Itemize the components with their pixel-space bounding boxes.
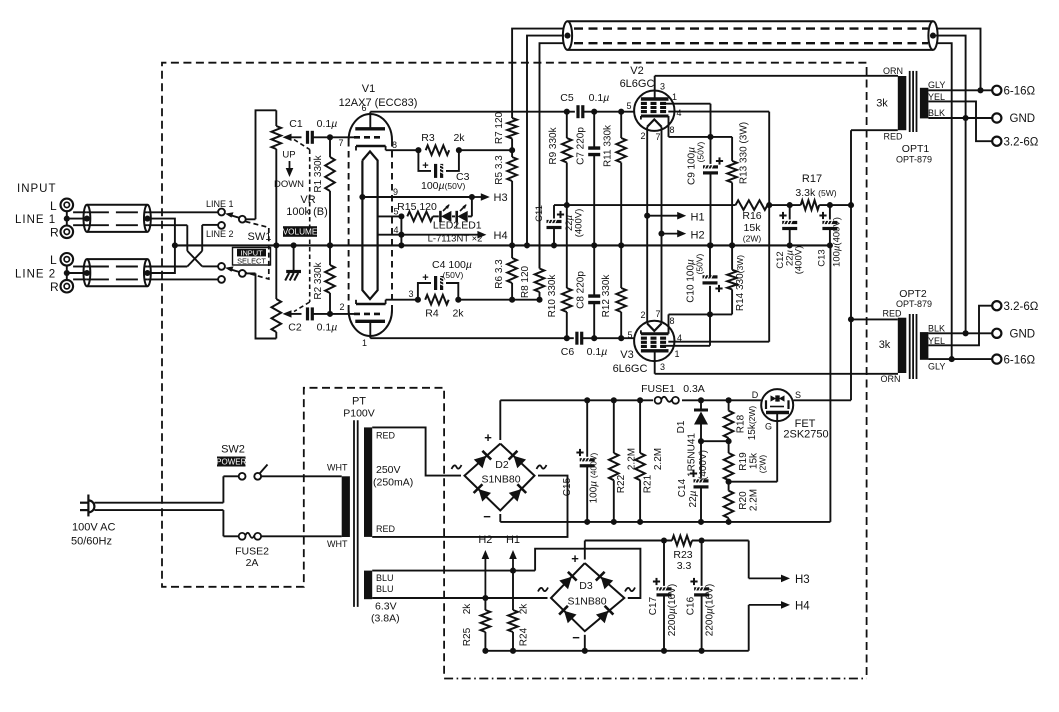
wire D2 plus to B+ line bbox=[499, 400, 501, 440]
svg-text:+: + bbox=[422, 272, 428, 284]
svg-text:GND: GND bbox=[1010, 113, 1036, 125]
svg-text:R16: R16 bbox=[742, 210, 761, 222]
svg-text:3k: 3k bbox=[876, 98, 888, 110]
wire R1 hot to SW1 lower bbox=[73, 224, 87, 226]
wire shield rail to bus bbox=[147, 219, 175, 273]
svg-text:100µ(400V): 100µ(400V) bbox=[832, 217, 843, 267]
potentiometer VR 100k(B) element upper bbox=[275, 110, 277, 126]
svg-text:H4: H4 bbox=[795, 601, 810, 613]
node pin3-R4 bbox=[415, 297, 421, 303]
tilde right (D3) bbox=[625, 588, 635, 592]
node C12-bus bbox=[787, 242, 793, 248]
wire PT RED top to D2 bbox=[372, 427, 461, 475]
wire BLU bottom to D3 bbox=[372, 597, 547, 599]
label VOLUME box bbox=[283, 226, 317, 237]
switch SW1 lower contact LINE2 bbox=[218, 276, 225, 283]
LED1 bbox=[452, 215, 455, 217]
svg-text:0.1µ: 0.1µ bbox=[317, 118, 338, 130]
wire R16 feed line bbox=[554, 204, 736, 206]
capacitor C4 100u electrolytic bbox=[418, 283, 431, 300]
node R14-bus bbox=[729, 242, 735, 248]
node K-V2 bbox=[707, 134, 713, 140]
wire heater column pin2 bbox=[646, 127, 648, 324]
terminal 6-16 ohm (OPT2) bbox=[992, 355, 1001, 364]
svg-text:C5: C5 bbox=[560, 92, 574, 104]
V1 cathode (upper) pin8 bbox=[356, 145, 386, 148]
svg-text:R20: R20 bbox=[738, 491, 749, 510]
wire D3 plus to R23 line bbox=[584, 541, 586, 560]
node C7-bus bbox=[591, 242, 597, 248]
svg-text:C15: C15 bbox=[562, 477, 573, 496]
node B+ OPT2 RED bbox=[848, 316, 854, 322]
wire R23 line bbox=[585, 540, 672, 542]
switch SW1 upper contact LINE1 bbox=[218, 209, 225, 216]
svg-text:D1: D1 bbox=[676, 420, 687, 433]
resistor R1 330k bbox=[329, 137, 331, 157]
V1 plate (upper) pin6 bbox=[355, 127, 385, 130]
wire OPT2 RED lead bbox=[851, 318, 898, 320]
arrow H1 (psu) bbox=[512, 555, 514, 570]
svg-text:R7 120: R7 120 bbox=[494, 111, 505, 144]
svg-text:8: 8 bbox=[669, 316, 674, 326]
V2 heater chevron bbox=[647, 119, 661, 126]
tilde right (D2) bbox=[537, 465, 547, 469]
svg-text:2.2M: 2.2M bbox=[653, 448, 664, 470]
svg-text:3: 3 bbox=[408, 289, 413, 299]
wire PSU ground rail bbox=[500, 521, 830, 523]
node H1 on BLU top bbox=[510, 568, 516, 574]
arrow H3 (psu) bbox=[749, 577, 785, 579]
svg-text:3k: 3k bbox=[879, 339, 891, 351]
tube V1 envelope bbox=[349, 114, 392, 140]
node C13 top bbox=[827, 202, 833, 208]
node C10-bus bbox=[707, 242, 713, 248]
svg-text:0.3A: 0.3A bbox=[683, 383, 705, 395]
svg-text:6-16Ω: 6-16Ω bbox=[1004, 354, 1036, 366]
svg-text:LINE 1: LINE 1 bbox=[15, 214, 56, 226]
wire H4 out bbox=[748, 605, 750, 651]
wire AC twin upper bbox=[95, 502, 224, 504]
svg-text:C8 220p: C8 220p bbox=[576, 271, 587, 309]
svg-text:C14: C14 bbox=[677, 478, 688, 497]
node R4-out bbox=[455, 297, 461, 303]
resistor R6 3.3 bbox=[511, 245, 513, 258]
svg-text:100µ (400V): 100µ (400V) bbox=[589, 452, 600, 503]
V1 pin5 wire bbox=[378, 215, 402, 217]
transistor FET 2SK2750 bbox=[761, 389, 793, 421]
node C6-C8 bbox=[591, 335, 597, 341]
NFB cable conductor 1 (dashed inside) bbox=[574, 27, 928, 29]
V3 cathode pin8 wire bbox=[668, 314, 670, 333]
resistor R25 2k bbox=[484, 598, 486, 610]
svg-text:1: 1 bbox=[674, 349, 679, 359]
node C16 bottom bbox=[699, 648, 705, 654]
svg-text:LINE 2: LINE 2 bbox=[206, 229, 234, 239]
transformer OPT1 primary bbox=[898, 76, 907, 130]
wire SW1 lower pole to pot bottom bbox=[256, 273, 277, 338]
resistor R11 330k bbox=[620, 112, 622, 138]
wire OPT1 YEL to 3.2-6 bbox=[928, 101, 992, 141]
svg-text:G: G bbox=[765, 422, 772, 432]
svg-text:3.3k (5W): 3.3k (5W) bbox=[795, 187, 836, 199]
svg-text:4: 4 bbox=[393, 225, 398, 235]
arrow H4 (V1 heater) bbox=[401, 234, 481, 236]
svg-text:(3.8A): (3.8A) bbox=[371, 613, 400, 625]
svg-text:3.2-6Ω: 3.2-6Ω bbox=[1004, 301, 1039, 313]
svg-text:BLU: BLU bbox=[376, 584, 394, 594]
svg-text:R15 120: R15 120 bbox=[397, 201, 437, 213]
svg-text:D2: D2 bbox=[495, 459, 509, 471]
terminal 3.2-6 ohm (OPT2) bbox=[992, 301, 1001, 310]
svg-text:2A: 2A bbox=[246, 557, 259, 569]
capacitor C14 22u electrolytic bbox=[700, 441, 702, 478]
svg-text:FUSE1: FUSE1 bbox=[641, 383, 675, 395]
V1 grid (upper) pin7 bbox=[354, 136, 383, 139]
V1 plate (lower) pin1 bbox=[355, 320, 385, 323]
svg-text:YEL: YEL bbox=[928, 336, 945, 346]
switch SW1 lower contact LINE1 bbox=[218, 263, 225, 270]
svg-text:250V: 250V bbox=[376, 464, 401, 476]
svg-text:OPT-879: OPT-879 bbox=[896, 155, 932, 165]
resistor R21 2.2M bbox=[639, 400, 641, 453]
wire V3 plate to OPT2 ORN bbox=[655, 373, 898, 375]
svg-text:+: + bbox=[484, 430, 492, 445]
wire D2 minus to ground rail bbox=[499, 514, 501, 522]
svg-text:R22: R22 bbox=[616, 474, 627, 493]
svg-text:(2W): (2W) bbox=[743, 234, 762, 244]
svg-text:R17: R17 bbox=[802, 173, 822, 185]
SW1 gang linkage dashed bbox=[246, 222, 269, 280]
svg-text:INPUT: INPUT bbox=[17, 183, 57, 195]
node C2-R2 bbox=[327, 311, 333, 317]
svg-text:(2W): (2W) bbox=[758, 455, 768, 474]
transformer PT 6.3V secondary bbox=[364, 571, 372, 600]
wire main ground bus bbox=[175, 244, 831, 246]
wire OPT2 BLK to GND bbox=[928, 332, 992, 334]
arrow H4 (psu) bbox=[749, 604, 785, 606]
node C5-R11 bbox=[618, 109, 624, 115]
svg-text:C1: C1 bbox=[289, 118, 303, 130]
svg-text:R12 330k: R12 330k bbox=[601, 274, 612, 318]
resistor R20 2.2M bbox=[728, 482, 730, 491]
resistor R3 2k bbox=[426, 145, 450, 155]
svg-text:0.1µ: 0.1µ bbox=[317, 322, 338, 334]
svg-text:2k: 2k bbox=[452, 308, 464, 320]
tube V2 6L6GC bbox=[634, 91, 674, 131]
resistor R18 15k bbox=[728, 400, 730, 410]
wire R17 line bbox=[769, 204, 801, 206]
svg-text:(400V): (400V) bbox=[698, 450, 709, 480]
svg-text:C17: C17 bbox=[648, 596, 659, 615]
V1 cathode (lower) pin3 bbox=[356, 303, 386, 306]
svg-text:4: 4 bbox=[677, 333, 682, 343]
arrow H3 (V1 heater) bbox=[472, 196, 485, 198]
svg-text:H3: H3 bbox=[795, 574, 810, 586]
svg-text:H2: H2 bbox=[691, 230, 705, 242]
svg-text:C13: C13 bbox=[817, 249, 828, 266]
shielded cable input line1 bbox=[87, 204, 147, 206]
node R18 top bbox=[726, 397, 732, 403]
transformer PT HV secondary bbox=[364, 427, 372, 537]
tilde left (D3) bbox=[538, 588, 548, 592]
node C13-bus (bus end) bbox=[827, 242, 833, 248]
svg-text:R9 330k: R9 330k bbox=[548, 126, 559, 164]
terminal GND (OPT2) bbox=[992, 329, 1001, 338]
resistor R13 330 3W bbox=[711, 136, 733, 138]
fuse FUSE2 2A bbox=[239, 533, 246, 540]
node C5-C7 bbox=[591, 109, 597, 115]
arrow H2 (psu) bbox=[484, 555, 486, 598]
wire NFB2 right to OPT2 GLY bbox=[936, 43, 952, 359]
node pot center tap on bus bbox=[273, 242, 279, 248]
svg-text:L: L bbox=[50, 199, 57, 213]
wire D3 minus bbox=[584, 635, 586, 651]
wire NFB2 left to R8 column bbox=[540, 43, 565, 268]
svg-text:(400V): (400V) bbox=[794, 246, 805, 275]
capacitor C3 100u electrolytic bbox=[418, 150, 431, 171]
node C6-R12 bbox=[618, 335, 624, 341]
AC plug bbox=[87, 495, 89, 517]
wire B+ rail (OPT RED feed) bbox=[850, 130, 852, 400]
svg-text:1: 1 bbox=[672, 92, 677, 102]
capacitor C13 100u electrolytic bbox=[829, 205, 831, 219]
svg-text:SW1: SW1 bbox=[248, 231, 272, 243]
transformer OPT2 primary bbox=[898, 318, 907, 373]
label INPUT SELECT box bbox=[233, 248, 271, 266]
svg-text:R2 330k: R2 330k bbox=[313, 261, 324, 299]
node R21 bottom bbox=[637, 519, 643, 525]
svg-text:7: 7 bbox=[655, 309, 660, 319]
svg-text:P100V: P100V bbox=[343, 408, 375, 420]
wire heater column pin7 bbox=[661, 127, 663, 324]
node C6-R10 bbox=[564, 335, 570, 341]
svg-text:SW2: SW2 bbox=[221, 444, 245, 456]
node pin8-R3 bbox=[415, 147, 421, 153]
svg-text:(400V): (400V) bbox=[574, 209, 585, 238]
wire shield right to GND line bbox=[936, 36, 966, 334]
RCA jack LINE2 L bbox=[61, 253, 74, 266]
potentiometer VR element lower bbox=[275, 245, 277, 299]
wire SW1 upper pole to pot top bbox=[256, 110, 277, 219]
svg-text:D: D bbox=[752, 390, 759, 400]
wire L2 hot to SW1 upper bbox=[73, 266, 87, 268]
VR wiper lower (to C2) bbox=[283, 310, 292, 317]
wire jack shields line2 bbox=[66, 266, 68, 280]
svg-text:6L6GC: 6L6GC bbox=[620, 78, 655, 90]
switch SW1 lower pole+arm bbox=[239, 270, 246, 277]
node R22 top bbox=[611, 397, 617, 403]
bridge rectifier D2 S1NB80 bbox=[465, 444, 535, 511]
shielded cable input line2 bbox=[87, 258, 147, 260]
svg-text:D3: D3 bbox=[579, 580, 593, 592]
svg-text:LINE 1: LINE 1 bbox=[206, 199, 234, 209]
V1 pin9 wire to H3 bbox=[359, 194, 365, 200]
node B+ R17 bbox=[848, 202, 854, 208]
node C9-bus bbox=[707, 242, 713, 248]
node ground stub bbox=[291, 242, 297, 248]
VR wiper upper (to C1) bbox=[283, 134, 292, 141]
svg-text:R13 330 (3W): R13 330 (3W) bbox=[739, 122, 750, 184]
resistor R12 330k bbox=[620, 245, 622, 288]
svg-text:R11 330k: R11 330k bbox=[603, 124, 614, 167]
node C17 bottom bbox=[661, 648, 667, 654]
svg-text:+: + bbox=[571, 551, 579, 566]
switch SW2 bbox=[239, 473, 246, 480]
node C12 top bbox=[787, 202, 793, 208]
node shield left bbox=[564, 33, 570, 39]
svg-text:RED: RED bbox=[882, 309, 902, 319]
node R19-R20 (gate) bbox=[726, 479, 732, 485]
transformer OPT1 core bbox=[909, 71, 911, 132]
svg-text:R10 330k: R10 330k bbox=[547, 274, 558, 318]
svg-text:VR: VR bbox=[300, 194, 315, 206]
svg-text:2k: 2k bbox=[453, 132, 465, 144]
transformer OPT2 secondary bbox=[920, 332, 929, 360]
svg-text:S1NB80: S1NB80 bbox=[481, 474, 520, 486]
V2 plate lead pin3 bbox=[654, 76, 656, 99]
svg-text:R1 330k: R1 330k bbox=[313, 154, 324, 192]
svg-text:5: 5 bbox=[626, 101, 631, 111]
svg-text:R: R bbox=[50, 226, 59, 240]
svg-text:R: R bbox=[50, 280, 59, 294]
node C15 bottom bbox=[584, 519, 590, 525]
svg-text:(50V): (50V) bbox=[695, 253, 705, 274]
capacitor C11 22u electrolytic bbox=[553, 205, 555, 218]
wire jack shields line1 bbox=[66, 211, 68, 225]
svg-text:3.2-6Ω: 3.2-6Ω bbox=[1004, 137, 1039, 149]
svg-text:R6 3.3: R6 3.3 bbox=[494, 259, 505, 289]
node D1 top bbox=[698, 397, 704, 403]
wire OPT1 BLK to GND bbox=[928, 117, 992, 119]
node R22 bottom bbox=[611, 519, 617, 525]
svg-text:FUSE2: FUSE2 bbox=[235, 546, 269, 558]
LED2 bbox=[433, 215, 439, 217]
capacitor C2 bbox=[306, 307, 309, 320]
V1 pin4 wire bbox=[378, 234, 402, 236]
svg-text:DOWN: DOWN bbox=[274, 179, 304, 190]
fuse FUSE1 0.3A bbox=[655, 397, 662, 404]
V2 pin4 wire (screen) bbox=[668, 111, 769, 113]
transformer PT core bbox=[353, 420, 355, 607]
svg-text:UP: UP bbox=[282, 150, 295, 161]
svg-text:C2: C2 bbox=[288, 322, 302, 334]
node R8-pin3line bbox=[536, 297, 542, 303]
V2 pin1 wire bbox=[660, 103, 711, 105]
svg-text:H3: H3 bbox=[494, 192, 508, 204]
node R7-R5 bbox=[509, 147, 515, 153]
wire heater pins to bus bbox=[400, 216, 402, 245]
svg-text:3: 3 bbox=[660, 362, 665, 372]
capacitor C17 2200u electrolytic bbox=[663, 541, 665, 586]
svg-text:OPT1: OPT1 bbox=[902, 143, 930, 155]
svg-text:7: 7 bbox=[338, 138, 343, 148]
svg-text:0.1µ: 0.1µ bbox=[587, 346, 608, 358]
svg-text:R8 120: R8 120 bbox=[520, 265, 531, 298]
resistor R17 3.3k bbox=[801, 200, 820, 210]
capacitor C7 220p bbox=[593, 112, 595, 147]
wire OPT2 YEL to 3.2-6 bbox=[928, 306, 992, 346]
transformer OPT2 core bbox=[909, 314, 911, 379]
arrow H2 bbox=[662, 233, 681, 235]
wire BLU top to D3 bbox=[372, 570, 535, 572]
svg-text:(50V): (50V) bbox=[696, 141, 706, 162]
node C11-bus bbox=[551, 242, 557, 248]
svg-text:SELECT: SELECT bbox=[237, 257, 266, 266]
bridge rectifier D3 S1NB80 bbox=[551, 563, 624, 631]
svg-text:50/60Hz: 50/60Hz bbox=[71, 536, 112, 548]
resistor R9 330k bbox=[566, 112, 568, 138]
svg-text:2200µ(16V): 2200µ(16V) bbox=[667, 584, 678, 636]
svg-text:2.2M: 2.2M bbox=[749, 489, 760, 511]
wire OPT2 GLY to 6-16 bbox=[928, 358, 992, 360]
switch SW1 upper contact LINE2 bbox=[218, 222, 225, 229]
svg-text:12AX7 (ECC83): 12AX7 (ECC83) bbox=[339, 97, 418, 109]
svg-text:R24: R24 bbox=[519, 627, 530, 646]
tube V3 6L6GC bbox=[634, 321, 674, 361]
transformer OPT1 secondary bbox=[920, 88, 929, 119]
tilde left (D2) bbox=[452, 465, 462, 469]
resistor R5 3.3 bbox=[511, 150, 513, 157]
svg-text:GND: GND bbox=[1010, 329, 1036, 341]
resistor R23 3.3 bbox=[672, 536, 692, 546]
svg-text:3.3: 3.3 bbox=[677, 560, 692, 572]
node C17 top bbox=[661, 537, 667, 543]
node R3-out bbox=[456, 147, 462, 153]
svg-text:4: 4 bbox=[676, 108, 681, 118]
svg-text:ORN: ORN bbox=[883, 66, 903, 76]
svg-text:2: 2 bbox=[339, 302, 344, 312]
shielded cable (NFB) jacket bbox=[568, 20, 934, 22]
node D1-C14 bbox=[698, 438, 704, 444]
wire V2 plate to OPT1 ORN bbox=[655, 75, 898, 77]
V3 heater chevron bbox=[647, 324, 661, 331]
svg-text:BLK: BLK bbox=[928, 324, 945, 334]
svg-text:V3: V3 bbox=[620, 349, 633, 361]
node C16 top bbox=[699, 537, 705, 543]
node R16-R17-rail bbox=[766, 202, 772, 208]
diode D1 1R5NU41 bbox=[700, 400, 702, 408]
wire B+ line bbox=[500, 399, 653, 401]
RCA jack LINE2 R bbox=[61, 280, 74, 293]
resistor R19 15k bbox=[728, 441, 730, 453]
svg-text:H1: H1 bbox=[506, 534, 520, 546]
capacitor C12 22u electrolytic bbox=[789, 205, 791, 219]
svg-text:OPT-879: OPT-879 bbox=[896, 299, 932, 309]
svg-text:R4: R4 bbox=[425, 308, 439, 320]
svg-text:2200µ(16V): 2200µ(16V) bbox=[705, 584, 716, 636]
RCA jack LINE1 R bbox=[61, 226, 74, 239]
wire V1 plate to C5 bbox=[370, 111, 575, 113]
svg-text:(250mA): (250mA) bbox=[373, 477, 413, 489]
wire OPT1 GLY to 6-16 bbox=[928, 89, 992, 91]
svg-text:1: 1 bbox=[362, 338, 367, 348]
svg-text:PT: PT bbox=[352, 396, 366, 408]
svg-text:V2: V2 bbox=[630, 65, 643, 77]
svg-text:2: 2 bbox=[640, 310, 645, 320]
terminal 6-16 ohm (OPT1) bbox=[992, 86, 1001, 95]
svg-text:2SK2750: 2SK2750 bbox=[783, 429, 828, 441]
svg-text:GLY: GLY bbox=[928, 362, 945, 372]
ground symbol (volume) bbox=[293, 245, 295, 271]
svg-text:WHT: WHT bbox=[327, 539, 348, 549]
node C15 top bbox=[584, 397, 590, 403]
resistor R16 15k bbox=[736, 200, 768, 210]
svg-text:+: + bbox=[422, 160, 428, 172]
capacitor C6 0.1u bbox=[575, 332, 578, 345]
svg-text:2k: 2k bbox=[462, 603, 473, 615]
capacitor C10 100u electrolytic bbox=[709, 286, 711, 315]
capacitor C9 100u electrolytic bbox=[710, 137, 712, 164]
